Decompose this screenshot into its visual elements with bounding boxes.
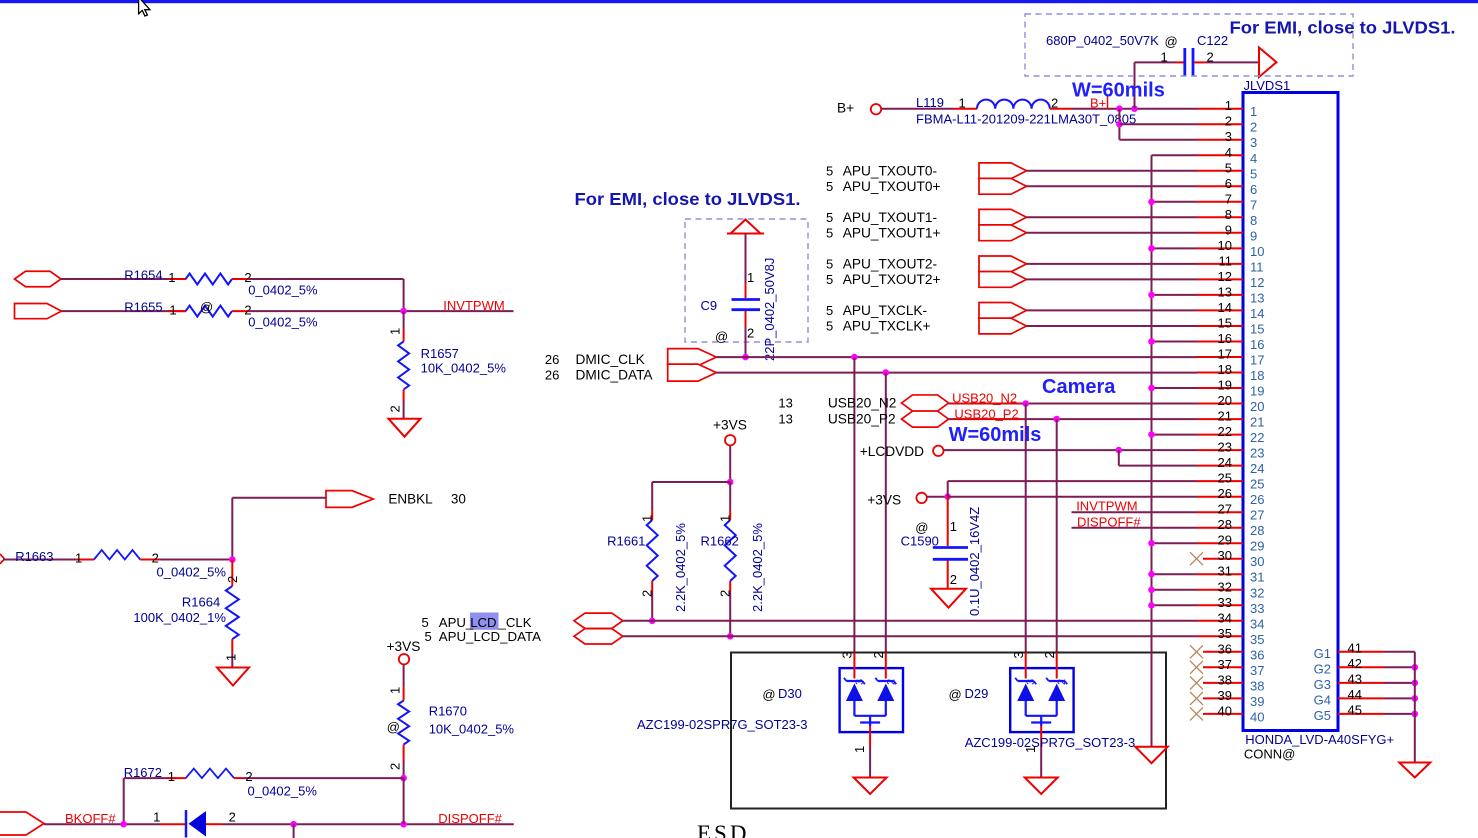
svg-text:JLVDS1: JLVDS1 <box>1244 78 1291 93</box>
svg-text:5: 5 <box>826 225 833 240</box>
svg-text:HONDA_LVD-A40SFYG+: HONDA_LVD-A40SFYG+ <box>1245 732 1394 747</box>
svg-text:36: 36 <box>1250 647 1264 662</box>
svg-text:33: 33 <box>1218 595 1232 610</box>
svg-text:1: 1 <box>852 746 867 753</box>
svg-text:12: 12 <box>1218 269 1232 284</box>
svg-text:34: 34 <box>1218 610 1232 625</box>
svg-text:For EMI, close to JLVDS1.: For EMI, close to JLVDS1. <box>1230 18 1456 38</box>
svg-text:27: 27 <box>1218 502 1232 517</box>
svg-text:22: 22 <box>1218 424 1232 439</box>
svg-text:20: 20 <box>1250 399 1264 414</box>
svg-text:R1654: R1654 <box>124 267 162 282</box>
svg-text:30: 30 <box>1250 554 1264 569</box>
svg-text:R1672: R1672 <box>124 765 162 780</box>
svg-text:39: 39 <box>1250 694 1264 709</box>
svg-text:1: 1 <box>640 515 655 522</box>
svg-text:5: 5 <box>1250 166 1257 181</box>
svg-text:D29: D29 <box>965 686 989 701</box>
svg-text:2: 2 <box>950 572 957 587</box>
svg-text:24: 24 <box>1218 455 1232 470</box>
svg-text:B+: B+ <box>837 101 854 116</box>
svg-text:26: 26 <box>545 352 559 367</box>
svg-text:2: 2 <box>1250 120 1257 135</box>
svg-text:LCD: LCD <box>470 615 496 630</box>
svg-text:2.2K_0402_5%: 2.2K_0402_5% <box>750 523 765 612</box>
svg-text:7: 7 <box>1225 191 1232 206</box>
svg-text:+LCDVDD: +LCDVDD <box>860 444 924 459</box>
svg-text:30: 30 <box>451 491 466 506</box>
svg-text:0_0402_5%: 0_0402_5% <box>248 283 318 298</box>
svg-text:APU_TXOUT0-: APU_TXOUT0- <box>843 163 937 178</box>
svg-text:5: 5 <box>826 303 833 318</box>
svg-text:14: 14 <box>1218 300 1232 315</box>
svg-text:41: 41 <box>1348 640 1362 655</box>
svg-text:2: 2 <box>1056 679 1068 685</box>
svg-text:31: 31 <box>1218 564 1232 579</box>
svg-text:19: 19 <box>1218 378 1232 393</box>
svg-text:32: 32 <box>1218 579 1232 594</box>
svg-text:For EMI, close to JLVDS1.: For EMI, close to JLVDS1. <box>575 189 801 209</box>
svg-text:5: 5 <box>826 179 833 194</box>
svg-text:37: 37 <box>1250 663 1264 678</box>
svg-text:18: 18 <box>1250 368 1264 383</box>
svg-text:AZC199-02SPR7G_SOT23-3: AZC199-02SPR7G_SOT23-3 <box>965 735 1136 750</box>
svg-text:G5: G5 <box>1314 708 1331 723</box>
svg-text:@: @ <box>1165 34 1178 49</box>
svg-text:ESD: ESD <box>697 821 749 838</box>
svg-text:10K_0402_5%: 10K_0402_5% <box>421 360 507 375</box>
svg-text:1: 1 <box>950 519 957 534</box>
svg-text:34: 34 <box>1250 616 1264 631</box>
svg-text:_CLK: _CLK <box>498 615 532 630</box>
svg-text:C122: C122 <box>1197 33 1228 48</box>
svg-text:INVTPWM: INVTPWM <box>443 298 504 313</box>
svg-text:5: 5 <box>826 319 833 334</box>
svg-text:23: 23 <box>1218 440 1232 455</box>
svg-text:2: 2 <box>245 769 252 784</box>
svg-text:10K_0402_5%: 10K_0402_5% <box>429 722 515 737</box>
svg-text:10: 10 <box>1218 238 1232 253</box>
svg-text:5: 5 <box>422 615 429 630</box>
svg-text:2: 2 <box>388 405 403 412</box>
svg-text:BKOFF#: BKOFF# <box>65 811 116 826</box>
svg-text:19: 19 <box>1250 384 1264 399</box>
svg-text:7: 7 <box>1250 197 1257 212</box>
svg-text:R1670: R1670 <box>429 704 467 719</box>
svg-text:@: @ <box>915 520 928 535</box>
svg-text:9: 9 <box>1250 228 1257 243</box>
svg-text:2.2K_0402_5%: 2.2K_0402_5% <box>673 523 688 612</box>
svg-text:5: 5 <box>1225 160 1232 175</box>
svg-text:100K_0402_1%: 100K_0402_1% <box>133 610 226 625</box>
svg-text:INVTPWM: INVTPWM <box>1076 499 1137 514</box>
svg-text:11: 11 <box>1219 253 1233 268</box>
svg-text:36: 36 <box>1218 641 1232 656</box>
svg-text:APU_: APU_ <box>439 615 474 630</box>
svg-text:0.1U_0402_16V4Z: 0.1U_0402_16V4Z <box>967 507 982 616</box>
svg-text:G4: G4 <box>1314 692 1331 707</box>
svg-text:R1662: R1662 <box>701 533 739 548</box>
svg-text:AZC199-02SPR7G_SOT23-3: AZC199-02SPR7G_SOT23-3 <box>637 717 808 732</box>
svg-text:@: @ <box>387 720 400 735</box>
svg-text:1: 1 <box>168 270 175 285</box>
svg-text:APU_TXCLK-: APU_TXCLK- <box>843 303 927 318</box>
svg-text:D30: D30 <box>778 686 802 701</box>
svg-text:38: 38 <box>1250 678 1264 693</box>
svg-text:680P_0402_50V7K: 680P_0402_50V7K <box>1046 33 1159 48</box>
svg-text:+3VS: +3VS <box>713 418 747 433</box>
svg-text:15: 15 <box>1218 316 1232 331</box>
svg-text:1: 1 <box>388 687 403 694</box>
svg-text:4: 4 <box>1250 151 1257 166</box>
svg-text:APU_TXOUT0+: APU_TXOUT0+ <box>843 179 941 194</box>
svg-text:DISPOFF#: DISPOFF# <box>1077 514 1141 529</box>
svg-text:CONN@: CONN@ <box>1244 747 1295 762</box>
svg-text:30: 30 <box>1218 548 1232 563</box>
svg-text:23: 23 <box>1250 446 1264 461</box>
svg-text:18: 18 <box>1218 362 1232 377</box>
svg-text:R1663: R1663 <box>15 549 53 564</box>
svg-text:2: 2 <box>871 651 886 658</box>
svg-text:APU_TXOUT1+: APU_TXOUT1+ <box>843 225 941 240</box>
svg-text:G2: G2 <box>1314 661 1331 676</box>
svg-text:5: 5 <box>425 629 432 644</box>
svg-text:13: 13 <box>1218 284 1232 299</box>
svg-text:C9: C9 <box>701 298 718 313</box>
svg-text:40: 40 <box>1218 703 1232 718</box>
svg-text:13: 13 <box>1250 290 1264 305</box>
svg-text:22: 22 <box>1250 430 1264 445</box>
svg-text:APU_LCD_DATA: APU_LCD_DATA <box>439 629 541 644</box>
svg-text:0_0402_5%: 0_0402_5% <box>157 564 227 579</box>
svg-text:15: 15 <box>1250 322 1264 337</box>
svg-text:R1655: R1655 <box>124 300 162 315</box>
svg-text:21: 21 <box>1218 409 1232 424</box>
svg-text:12: 12 <box>1250 275 1264 290</box>
svg-text:1: 1 <box>169 302 176 317</box>
svg-text:26: 26 <box>545 368 559 383</box>
svg-text:0_0402_5%: 0_0402_5% <box>248 315 318 330</box>
svg-text:USB20_P2: USB20_P2 <box>954 406 1018 421</box>
svg-text:G1: G1 <box>1314 646 1331 661</box>
svg-text:17: 17 <box>1250 353 1264 368</box>
svg-text:APU_TXOUT2-: APU_TXOUT2- <box>843 256 937 271</box>
svg-text:26: 26 <box>1250 492 1264 507</box>
svg-text:6: 6 <box>1250 182 1257 197</box>
svg-text:C1590: C1590 <box>901 533 939 548</box>
svg-text:APU_TXCLK+: APU_TXCLK+ <box>843 319 931 334</box>
svg-text:11: 11 <box>1250 259 1264 274</box>
svg-text:32: 32 <box>1250 585 1264 600</box>
svg-text:8: 8 <box>1250 213 1257 228</box>
svg-text:3: 3 <box>840 651 855 658</box>
svg-text:2: 2 <box>225 576 240 583</box>
svg-text:37: 37 <box>1218 657 1232 672</box>
svg-text:3: 3 <box>854 679 866 685</box>
svg-text:Camera: Camera <box>1042 376 1116 398</box>
svg-text:16: 16 <box>1218 331 1232 346</box>
svg-text:39: 39 <box>1218 688 1232 703</box>
svg-text:42: 42 <box>1348 656 1362 671</box>
svg-text:20: 20 <box>1218 393 1232 408</box>
svg-text:44: 44 <box>1348 687 1362 702</box>
svg-text:5: 5 <box>826 210 833 225</box>
svg-text:9: 9 <box>1225 222 1232 237</box>
svg-text:R1661: R1661 <box>607 533 645 548</box>
svg-text:DISPOFF#: DISPOFF# <box>438 811 502 826</box>
svg-text:1: 1 <box>168 769 175 784</box>
svg-text:R1657: R1657 <box>421 346 459 361</box>
svg-text:@: @ <box>715 329 728 344</box>
svg-text:APU_TXOUT2+: APU_TXOUT2+ <box>843 272 941 287</box>
svg-text:2: 2 <box>1042 651 1057 658</box>
svg-text:25: 25 <box>1218 471 1232 486</box>
svg-text:2: 2 <box>229 810 236 825</box>
svg-text:22P_0402_50V8J: 22P_0402_50V8J <box>762 258 777 361</box>
svg-text:3: 3 <box>1011 651 1026 658</box>
svg-text:L119: L119 <box>916 95 944 110</box>
svg-text:2: 2 <box>1225 114 1232 129</box>
svg-text:2: 2 <box>885 679 897 685</box>
svg-text:2: 2 <box>640 590 655 597</box>
svg-text:13: 13 <box>778 396 792 411</box>
svg-text:40: 40 <box>1250 709 1264 724</box>
svg-text:29: 29 <box>1250 539 1264 554</box>
svg-text:8: 8 <box>1225 207 1232 222</box>
svg-text:43: 43 <box>1348 671 1362 686</box>
svg-text:6: 6 <box>1225 176 1232 191</box>
svg-text:14: 14 <box>1250 306 1264 321</box>
svg-text:31: 31 <box>1250 570 1264 585</box>
svg-text:2: 2 <box>1207 50 1214 65</box>
svg-text:13: 13 <box>778 412 792 427</box>
svg-text:2: 2 <box>747 326 754 341</box>
svg-text:1: 1 <box>718 515 733 522</box>
svg-text:38: 38 <box>1218 672 1232 687</box>
svg-text:27: 27 <box>1250 508 1264 523</box>
svg-text:+3VS: +3VS <box>387 639 421 654</box>
svg-text:2: 2 <box>388 763 403 770</box>
svg-text:5: 5 <box>826 256 833 271</box>
svg-text:5: 5 <box>826 272 833 287</box>
svg-text:1: 1 <box>747 270 754 285</box>
svg-text:2: 2 <box>718 590 733 597</box>
svg-text:21: 21 <box>1250 415 1264 430</box>
svg-text:R1664: R1664 <box>182 595 220 610</box>
svg-text:1: 1 <box>388 328 403 335</box>
svg-text:@: @ <box>949 687 962 702</box>
svg-text:DMIC_DATA: DMIC_DATA <box>576 368 654 383</box>
svg-text:FBMA-L11-201209-221LMA30T_0805: FBMA-L11-201209-221LMA30T_0805 <box>916 112 1136 127</box>
svg-text:1: 1 <box>1225 98 1232 113</box>
svg-text:USB20_N2: USB20_N2 <box>952 391 1017 406</box>
svg-text:G3: G3 <box>1314 677 1331 692</box>
svg-text:4: 4 <box>1225 145 1232 160</box>
svg-text:1: 1 <box>1161 50 1168 65</box>
svg-text:35: 35 <box>1250 632 1264 647</box>
svg-text:5: 5 <box>826 163 833 178</box>
svg-text:28: 28 <box>1218 517 1232 532</box>
svg-text:28: 28 <box>1250 523 1264 538</box>
svg-text:USB20_N2: USB20_N2 <box>828 396 896 411</box>
svg-text:0_0402_5%: 0_0402_5% <box>248 783 318 798</box>
svg-text:3: 3 <box>1225 129 1232 144</box>
svg-text:@: @ <box>200 300 213 315</box>
svg-text:24: 24 <box>1250 461 1264 476</box>
svg-text:APU_TXOUT1-: APU_TXOUT1- <box>843 210 937 225</box>
svg-text:1: 1 <box>224 654 239 661</box>
svg-text:2: 2 <box>152 550 159 565</box>
svg-text:1: 1 <box>959 96 966 111</box>
svg-text:33: 33 <box>1250 601 1264 616</box>
svg-text:10: 10 <box>1250 244 1264 259</box>
svg-text:USB20_P2: USB20_P2 <box>828 412 896 427</box>
svg-text:25: 25 <box>1250 477 1264 492</box>
svg-text:16: 16 <box>1250 337 1264 352</box>
svg-text:2: 2 <box>1051 96 1058 111</box>
svg-text:35: 35 <box>1218 626 1232 641</box>
svg-text:DMIC_CLK: DMIC_CLK <box>576 352 645 367</box>
svg-text:1: 1 <box>75 550 82 565</box>
svg-text:45: 45 <box>1348 702 1362 717</box>
svg-text:26: 26 <box>1218 486 1232 501</box>
svg-text:1: 1 <box>1250 104 1257 119</box>
svg-text:1: 1 <box>153 810 160 825</box>
svg-text:17: 17 <box>1218 347 1232 362</box>
svg-text:@: @ <box>762 687 775 702</box>
svg-text:29: 29 <box>1218 533 1232 548</box>
svg-text:3: 3 <box>1250 135 1257 150</box>
svg-text:3: 3 <box>1025 679 1037 685</box>
svg-text:ENBKL: ENBKL <box>388 491 433 506</box>
svg-text:+3VS: +3VS <box>867 493 901 508</box>
svg-text:W=60mils: W=60mils <box>949 424 1042 446</box>
svg-text:W=60mils: W=60mils <box>1072 80 1165 102</box>
